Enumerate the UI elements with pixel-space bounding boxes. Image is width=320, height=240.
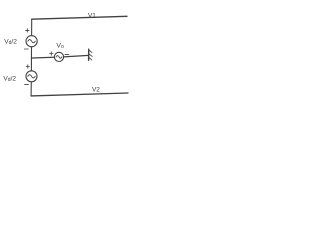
svg-text:Vd/2: Vd/2 — [4, 39, 17, 47]
svg-text:V1: V1 — [88, 13, 96, 20]
svg-text:Vd/2: Vd/2 — [3, 75, 16, 83]
svg-text:V2: V2 — [92, 86, 100, 93]
svg-text:Vo: Vo — [56, 43, 64, 51]
